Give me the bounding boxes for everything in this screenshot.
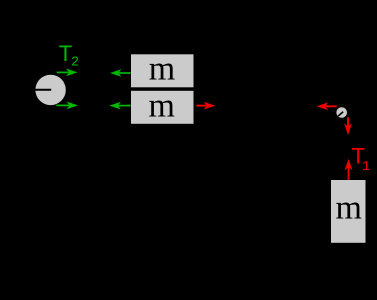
svg-text:m: m <box>335 190 361 227</box>
svg-text:1: 1 <box>362 160 370 175</box>
svg-text:2: 2 <box>71 56 79 71</box>
svg-text:m: m <box>149 51 175 88</box>
svg-text:m: m <box>148 87 174 124</box>
